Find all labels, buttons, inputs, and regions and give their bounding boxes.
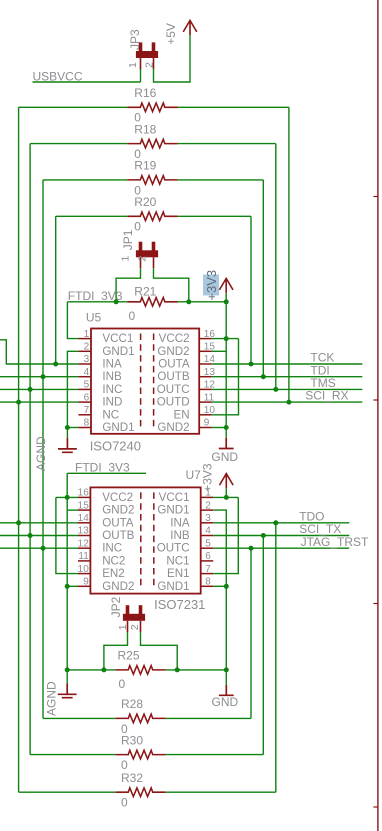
svg-text:R19: R19 xyxy=(134,159,156,173)
wire left bus R20 to U5 INA xyxy=(55,216,57,364)
U5 pin 10 EN xyxy=(199,414,212,416)
ground GND below U5 xyxy=(219,438,234,449)
svg-text:9: 9 xyxy=(204,418,210,429)
svg-text:8: 8 xyxy=(84,418,90,429)
wire right bus R18 to TMS xyxy=(275,144,277,390)
svg-text:4: 4 xyxy=(84,367,90,378)
wire left bus R16 column xyxy=(18,107,20,792)
wire U7 left gnd vertical xyxy=(66,473,68,683)
U5 pin 11 OUTD xyxy=(199,401,212,403)
svg-text:+3V3: +3V3 xyxy=(200,463,214,492)
resistor R16 value 0 xyxy=(127,103,177,112)
svg-text:AGND: AGND xyxy=(45,681,59,716)
ground AGND below U7 xyxy=(58,683,77,697)
U5 pin 15 GND2 xyxy=(199,350,212,352)
svg-text:14: 14 xyxy=(78,513,90,524)
wire JP1 pin 2 to +3V3 xyxy=(154,269,189,302)
wire right of R16 xyxy=(178,106,289,108)
svg-text:VCC2: VCC2 xyxy=(102,491,133,504)
wire R21 to +3V3 xyxy=(178,301,226,303)
svg-text:NC1: NC1 xyxy=(166,554,189,567)
wire down to AGND xyxy=(66,428,68,439)
svg-text:R30: R30 xyxy=(121,733,143,747)
wire +3V3/GND vertical at U5 right xyxy=(225,302,227,438)
junction GND / R25 row xyxy=(224,667,229,672)
svg-text:11: 11 xyxy=(78,551,89,562)
svg-text:IND: IND xyxy=(102,396,122,409)
junction JP1-2 / R21 xyxy=(186,299,191,304)
svg-text:OUTB: OUTB xyxy=(157,370,189,383)
svg-text:OUTC: OUTC xyxy=(157,383,190,396)
svg-text:OUTA: OUTA xyxy=(102,516,134,529)
junction R19 / TDI xyxy=(261,374,266,379)
wire U5 GND1 pin8 xyxy=(67,427,78,429)
junction R18 / TMS xyxy=(273,387,278,392)
svg-text:OUTA: OUTA xyxy=(158,358,190,371)
svg-text:7: 7 xyxy=(205,564,211,575)
U5 pin 16 VCC2 xyxy=(199,338,212,340)
wire left of R16 xyxy=(19,106,128,108)
junction R16 / SCI_RX xyxy=(286,400,291,405)
junction R19 bus / INB xyxy=(41,374,46,379)
svg-text:9: 9 xyxy=(83,577,89,588)
wire AGND to R25 xyxy=(67,669,115,671)
U7 pin 15 GND2 xyxy=(78,509,90,511)
svg-text:0: 0 xyxy=(119,677,126,691)
junction FTDI_3V3 / U7 VCC2 xyxy=(65,495,70,500)
svg-text:VCC2: VCC2 xyxy=(159,332,190,345)
svg-text:U7: U7 xyxy=(186,468,202,482)
U7 pin 2 GND1 xyxy=(201,509,214,511)
U7 pin 16 VCC2 xyxy=(78,496,90,498)
resistor R19 value 0 xyxy=(127,176,177,185)
svg-text:ISO7231: ISO7231 xyxy=(154,597,205,612)
frame tick y=196.5 xyxy=(373,196,378,198)
svg-text:1: 1 xyxy=(120,256,132,262)
wire net TMS_FTDI to U5 INC xyxy=(0,388,78,390)
svg-text:GND2: GND2 xyxy=(102,580,134,593)
svg-text:1: 1 xyxy=(84,329,90,340)
svg-text:INC: INC xyxy=(102,542,122,555)
junction R19 bus / INC xyxy=(41,546,46,551)
wire EN1 tied to VCC1 xyxy=(213,497,238,573)
U5 pin 4 INB xyxy=(78,376,91,378)
svg-text:OUTC: OUTC xyxy=(157,542,190,555)
wire R25 to GND xyxy=(166,669,227,671)
wire U7 VCC2 to EN2 tie xyxy=(56,496,78,498)
U5 pin 7 NC xyxy=(78,414,91,416)
svg-text:GND2: GND2 xyxy=(102,504,134,517)
U7 pin 11 NC2 xyxy=(78,560,90,562)
junction U5 GND1 / AGND xyxy=(65,425,70,430)
U5 pin 3 INA xyxy=(78,363,91,365)
svg-text:U5: U5 xyxy=(86,311,102,325)
svg-text:1: 1 xyxy=(127,62,139,68)
svg-text:EN1: EN1 xyxy=(167,567,190,580)
resistor R32 value 0 xyxy=(115,788,165,797)
wire TCK xyxy=(212,363,362,365)
wire TDO column down to R32 xyxy=(275,523,277,792)
wire left of R32 xyxy=(19,791,116,793)
wire EN2 tied to VCC2 xyxy=(56,497,78,573)
svg-text:VCC1: VCC1 xyxy=(159,491,190,504)
svg-text:6: 6 xyxy=(84,392,90,403)
svg-text:GND1: GND1 xyxy=(102,421,134,434)
junction JP2-1 / R25 row xyxy=(101,667,106,672)
svg-text:NC: NC xyxy=(102,408,119,421)
svg-text:GND1: GND1 xyxy=(157,504,189,517)
svg-text:FTDI_3V3: FTDI_3V3 xyxy=(75,460,130,474)
wire U7 GND2 pin15 xyxy=(67,509,78,511)
wire +3V3 arrow tail at U7 xyxy=(225,488,227,497)
U7 internal dashed isolation lines xyxy=(140,492,142,588)
svg-text:2: 2 xyxy=(143,62,155,68)
op-amp/IC U5 ISO7240 body xyxy=(91,329,199,434)
U7 pin 13 OUTB xyxy=(78,535,90,537)
U5 pin 6 IND xyxy=(78,401,91,403)
junction R18 bus / INC xyxy=(28,387,33,392)
wire SCI_RX xyxy=(212,401,362,403)
svg-text:VCC1: VCC1 xyxy=(102,332,133,345)
svg-text:INB: INB xyxy=(170,529,190,542)
U7 pin 4 INB xyxy=(201,535,214,537)
wire U7 VCC1 to EN1 tie xyxy=(213,496,238,498)
junction U7 GND1 pin8 xyxy=(224,584,229,589)
wire JP2 pin 2 to R25 row xyxy=(141,632,178,670)
wire TDO xyxy=(213,522,349,524)
junction +3V3 / U7 VCC1 xyxy=(224,495,229,500)
wire FTDI_3V3 to R21 xyxy=(67,301,127,303)
svg-text:2: 2 xyxy=(205,500,211,511)
U7 pin 3 INA xyxy=(201,522,214,524)
svg-text:0: 0 xyxy=(121,758,128,772)
svg-text:5: 5 xyxy=(205,538,211,549)
junction JTAG_TRST column xyxy=(249,546,254,551)
svg-text:16: 16 xyxy=(78,488,90,499)
wire up to JP3 pin 1 xyxy=(140,69,142,82)
U7 pin 1 VCC1 xyxy=(201,496,214,498)
svg-text:OUTD: OUTD xyxy=(157,396,190,409)
svg-text:3: 3 xyxy=(84,354,90,365)
svg-text:2: 2 xyxy=(137,256,149,262)
frame border right edge xyxy=(377,0,379,831)
svg-text:INA: INA xyxy=(170,516,190,529)
wire left of R20 xyxy=(56,215,128,217)
frame tick y=603.5 xyxy=(373,603,378,605)
wire U7 GND1 pin2 down to GND xyxy=(213,510,226,685)
wire JP1 pin 1 to FTDI_3V3 xyxy=(116,269,140,302)
wire U7 GND2 pin9 xyxy=(67,585,78,587)
U5 internal dashed isolation lines xyxy=(140,334,142,429)
U7 pin 10 EN2 xyxy=(78,573,90,575)
ground GND below U7 xyxy=(219,685,234,696)
wire right of R19 xyxy=(178,179,263,181)
U7 pin 5 OUTC xyxy=(201,547,214,549)
U7 pin 6 NC1 xyxy=(201,560,214,562)
wire left of R18 xyxy=(30,143,127,145)
wire USBVCC to JP3 pin 1 xyxy=(33,81,141,83)
U7 pin 12 INC xyxy=(78,547,90,549)
wire JTAG_TRST xyxy=(213,547,349,549)
wire left bus R19 column xyxy=(42,180,44,719)
wire +3V3 arrow tail xyxy=(225,293,227,302)
svg-text:15: 15 xyxy=(78,500,90,511)
wire U5 VCC2 to EN tie xyxy=(212,338,239,340)
svg-text:GND2: GND2 xyxy=(157,345,189,358)
svg-text:NC2: NC2 xyxy=(102,554,125,567)
wire right bus R20 to TCK xyxy=(250,216,252,364)
power +5V symbol xyxy=(183,20,197,35)
junction R20 bus / INA xyxy=(53,362,58,367)
U5 pin 9 GND2 xyxy=(199,427,212,429)
wire right of R18 xyxy=(178,143,276,145)
U7 pin 7 EN1 xyxy=(201,573,214,575)
wire right of R20 xyxy=(178,215,251,217)
svg-text:+3V3: +3V3 xyxy=(204,270,219,301)
IC U7 ISO7231 body xyxy=(90,487,200,593)
wire JTAG_TRST column down to R28 xyxy=(250,548,252,718)
U5 pin 8 GND1 xyxy=(78,427,91,429)
junction TDO column xyxy=(273,520,278,525)
svg-text:R28: R28 xyxy=(121,697,143,711)
junction U5 GND2 pin9 / GND xyxy=(224,425,229,430)
U5 pin 5 INC xyxy=(78,388,91,390)
svg-text:GND: GND xyxy=(212,695,239,709)
jumper JP1 xyxy=(139,242,143,252)
svg-text:12: 12 xyxy=(78,538,90,549)
wire JP2 pin 1 to R25 row xyxy=(104,632,128,670)
svg-text:INA: INA xyxy=(102,358,122,371)
svg-text:10: 10 xyxy=(78,564,90,575)
jumper JP2 xyxy=(126,605,130,615)
wire SCI_TX xyxy=(213,535,349,537)
svg-text:OUTB: OUTB xyxy=(102,529,134,542)
junction SCI_TX column xyxy=(261,533,266,538)
U7 pin 8 GND1 xyxy=(201,585,214,587)
svg-text:0: 0 xyxy=(134,220,141,234)
jumper JP3 xyxy=(139,42,143,52)
svg-text:2: 2 xyxy=(129,624,141,630)
resistor R25 value 0 xyxy=(115,666,165,675)
svg-text:EN: EN xyxy=(173,408,189,421)
svg-text:5: 5 xyxy=(84,380,90,391)
svg-text:GND1: GND1 xyxy=(157,580,189,593)
U5 pin 13 OUTB xyxy=(199,376,212,378)
resistor R21 value 0 xyxy=(127,298,177,307)
svg-text:+5V: +5V xyxy=(164,23,178,45)
svg-text:GND1: GND1 xyxy=(102,345,134,358)
U7 pin 9 GND2 xyxy=(78,585,90,587)
wire FTDI_3V3 stub at U7 xyxy=(67,472,146,474)
power +3V3 symbol at U7 xyxy=(220,474,234,489)
svg-text:R18: R18 xyxy=(134,122,156,136)
frame tick y=400.0 xyxy=(373,399,378,401)
wire right of R28 xyxy=(166,717,251,719)
svg-text:INC: INC xyxy=(102,383,122,396)
svg-text:JTAG_TRST: JTAG_TRST xyxy=(301,535,369,549)
highlight box +3V3 xyxy=(203,275,219,296)
wire net RX_FTDI to U5 IND xyxy=(0,401,78,403)
wire net TDO_FTDI to U7 OUTA xyxy=(0,522,78,524)
wire left of R28 xyxy=(43,717,115,719)
wire U5 GND1 pin2 down to pin8 xyxy=(67,351,78,427)
U5 pin 1 VCC1 xyxy=(78,338,91,340)
wire net TDI_FTDI to U5 INB xyxy=(0,376,78,378)
U5 pin 14 OUTA xyxy=(199,363,212,365)
junction R20 / TCK xyxy=(249,362,254,367)
svg-text:USBVCC: USBVCC xyxy=(33,69,83,83)
wire net TRST_FTDI to U7 INC xyxy=(0,547,78,549)
wire U5 GND2 pin9 xyxy=(212,427,226,429)
resistor R28 value 0 xyxy=(115,714,165,723)
wire left of R30 xyxy=(30,754,115,756)
svg-text:7: 7 xyxy=(84,405,90,416)
svg-text:JP3: JP3 xyxy=(128,29,142,50)
svg-text:13: 13 xyxy=(78,526,90,537)
U5 pin 2 GND1 xyxy=(78,350,91,352)
wire EN tied to VCC2 xyxy=(212,339,239,415)
resistor R18 value 0 xyxy=(127,139,177,148)
wire right bus R19 to TDI xyxy=(262,180,264,377)
svg-text:0: 0 xyxy=(121,796,128,810)
wire net TX_FTDI to U7 OUTB xyxy=(0,535,78,537)
junction JP2-2 / R25 row xyxy=(175,667,180,672)
junction AGND / R25 row xyxy=(65,667,70,672)
wire TMS xyxy=(212,388,362,390)
svg-text:R21: R21 xyxy=(134,285,156,299)
junction R18 bus / OUTB xyxy=(28,533,33,538)
wire U7 GND1 pin8 xyxy=(213,585,226,587)
svg-text:R25: R25 xyxy=(118,649,140,663)
svg-text:0: 0 xyxy=(129,309,136,323)
junction U7 GND2 pin9 xyxy=(65,584,70,589)
svg-text:ISO7240: ISO7240 xyxy=(90,438,141,453)
wire FTDI_3V3 down to U5 VCC1 xyxy=(67,302,78,339)
wire right of R32 xyxy=(166,791,276,793)
wire JP3 pin 2 to +5V xyxy=(154,33,191,82)
svg-text:8: 8 xyxy=(205,577,211,588)
svg-text:JP2: JP2 xyxy=(109,596,123,617)
wire net TCK_FTDI to U5 INA xyxy=(0,340,78,364)
wire U5 GND2 pin15 xyxy=(212,350,226,352)
wire SCI_TX column down to R30 xyxy=(262,536,264,755)
wire right bus R16 to SCI_RX xyxy=(288,107,290,402)
wire right of R30 xyxy=(166,754,264,756)
svg-text:EN2: EN2 xyxy=(102,567,125,580)
wire TDI xyxy=(212,376,362,378)
resistor R30 value 0 xyxy=(115,750,165,759)
U7 pin 14 OUTA xyxy=(78,522,90,524)
frame tick y=807.0 xyxy=(373,806,378,808)
svg-text:AGND: AGND xyxy=(34,436,48,471)
svg-text:2: 2 xyxy=(84,342,90,353)
power +3V3 symbol at U5 xyxy=(219,278,233,293)
wire left bus R18 column xyxy=(29,144,31,755)
junction R16 bus / OUTA xyxy=(16,520,21,525)
svg-text:INB: INB xyxy=(102,370,122,383)
svg-text:SCI_RX: SCI_RX xyxy=(305,389,348,403)
svg-text:R32: R32 xyxy=(121,771,143,785)
svg-text:GND: GND xyxy=(211,450,238,464)
svg-text:3: 3 xyxy=(205,513,211,524)
svg-text:JP1: JP1 xyxy=(121,229,135,250)
svg-text:R16: R16 xyxy=(134,86,156,100)
junction JP1-1 / FTDI_3V3 xyxy=(114,299,119,304)
junction VCC2 / +3V3 vertical xyxy=(224,336,229,341)
svg-text:1: 1 xyxy=(117,624,129,630)
junction R16 bus / IND xyxy=(16,400,21,405)
U5 pin 12 OUTC xyxy=(199,388,212,390)
ground AGND below U5 xyxy=(58,438,77,452)
svg-text:R20: R20 xyxy=(134,195,156,209)
svg-text:GND2: GND2 xyxy=(157,421,189,434)
svg-text:4: 4 xyxy=(205,526,211,537)
junction R21 / +3V3 xyxy=(224,299,229,304)
wire left of R19 xyxy=(43,179,127,181)
svg-text:6: 6 xyxy=(205,551,211,562)
resistor R20 value 0 xyxy=(127,212,177,221)
